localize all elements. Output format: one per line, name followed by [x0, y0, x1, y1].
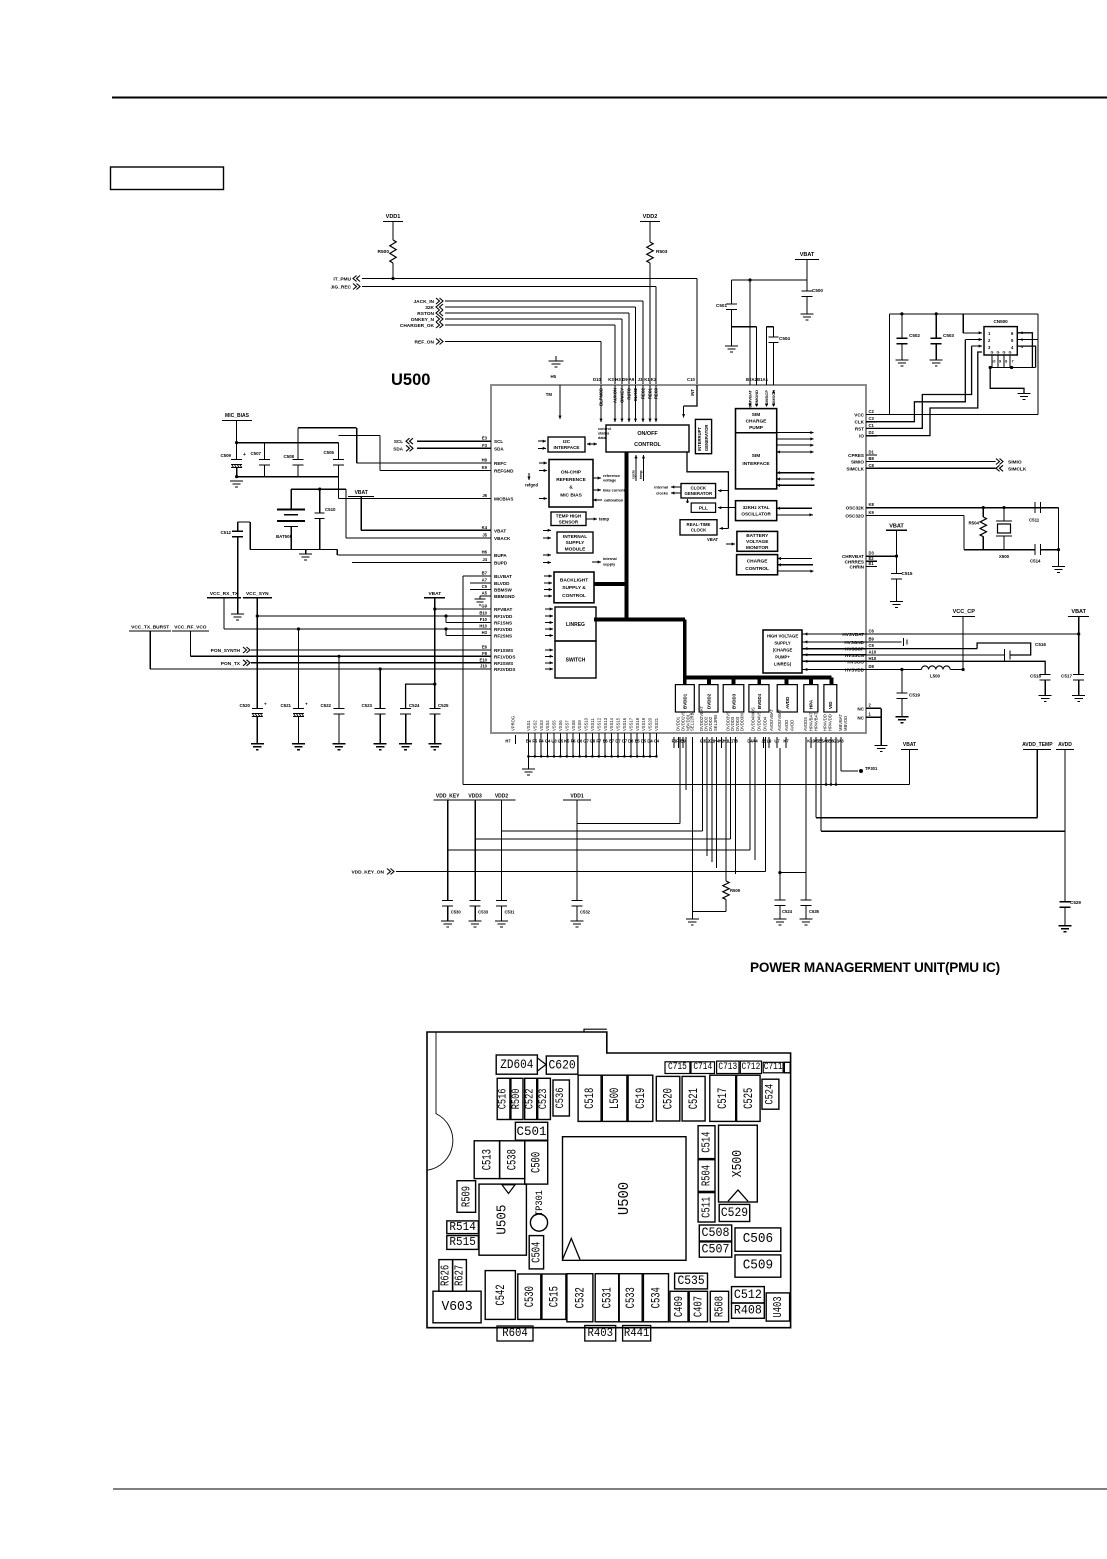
- svg-text:INT: INT: [690, 389, 695, 396]
- svg-text:C530: C530: [451, 910, 462, 915]
- svg-text:VSS5: VSS5: [552, 720, 557, 731]
- svg-text:VSS2: VSS2: [532, 720, 537, 731]
- svg-text:BUPA: BUPA: [494, 553, 507, 558]
- svg-text:DVDD4VS: DVDD4VS: [757, 711, 762, 731]
- svg-text:G9: G9: [481, 604, 487, 609]
- svg-text:REC3: REC3: [654, 387, 659, 399]
- svg-text:SUPPLY: SUPPLY: [774, 641, 791, 646]
- svg-text:C507: C507: [702, 1243, 730, 1257]
- svg-text:C531: C531: [505, 910, 516, 915]
- svg-text:C519: C519: [909, 693, 920, 698]
- svg-text:BACKLIGHT: BACKLIGHT: [560, 577, 588, 583]
- svg-text:C517: C517: [715, 1088, 730, 1109]
- svg-text:C511: C511: [700, 1197, 714, 1218]
- svg-text:C10: C10: [687, 377, 695, 382]
- svg-text:VDD_KEY_ON: VDD_KEY_ON: [351, 870, 384, 876]
- svg-text:E5: E5: [635, 739, 641, 744]
- svg-text:K4: K4: [482, 525, 488, 530]
- svg-text:VID: VID: [828, 701, 833, 709]
- svg-text:J5: J5: [482, 533, 487, 538]
- svg-text:F3: F3: [482, 443, 488, 448]
- svg-text:CONTROL: CONTROL: [634, 442, 661, 448]
- svg-text:AVDD: AVDD: [790, 720, 795, 731]
- svg-text:C536: C536: [555, 1088, 567, 1109]
- svg-text:+: +: [243, 452, 246, 458]
- svg-text:C519: C519: [633, 1088, 648, 1109]
- svg-text:C509: C509: [221, 453, 232, 458]
- svg-text:H3: H3: [482, 630, 488, 635]
- svg-text:U505: U505: [495, 1205, 511, 1235]
- svg-text:CLK: CLK: [855, 420, 865, 425]
- svg-text:AVDDVBAT: AVDDVBAT: [777, 709, 782, 731]
- svg-text:K8: K8: [869, 502, 875, 507]
- svg-text:VBAT: VBAT: [889, 524, 904, 530]
- svg-text:VSS19: VSS19: [641, 717, 646, 731]
- svg-text:D9: D9: [622, 377, 628, 382]
- svg-text:R604: R604: [502, 1327, 528, 1340]
- svg-text:TM: TM: [546, 392, 553, 397]
- svg-text:C506: C506: [324, 450, 335, 455]
- svg-text:VSS11: VSS11: [590, 718, 595, 731]
- svg-text:C538: C538: [505, 1149, 520, 1170]
- svg-text:SWITCH: SWITCH: [566, 657, 586, 663]
- svg-text:RSTON: RSTON: [417, 311, 434, 317]
- svg-text:ZD604: ZD604: [500, 1057, 533, 1072]
- svg-text:C534: C534: [648, 1287, 663, 1308]
- svg-text:AUXON: AUXON: [613, 388, 618, 403]
- svg-text:HVSVBAT: HVSVBAT: [842, 632, 864, 637]
- svg-text:H9: H9: [482, 458, 488, 463]
- svg-text:VDD3: VDD3: [468, 794, 482, 800]
- svg-text:C501: C501: [716, 303, 727, 308]
- svg-text:PLL: PLL: [699, 505, 708, 511]
- svg-text:C9: C9: [869, 643, 875, 648]
- svg-text:D10: D10: [593, 377, 601, 382]
- svg-text:PON_TX: PON_TX: [221, 661, 241, 667]
- svg-text:C532: C532: [580, 910, 591, 915]
- svg-text:INTERFACE: INTERFACE: [553, 445, 579, 450]
- svg-text:calibration: calibration: [604, 499, 624, 503]
- svg-text:RF2SWS: RF2SWS: [494, 661, 513, 666]
- svg-text:RSTO: RSTO: [627, 387, 632, 399]
- svg-text:C520: C520: [661, 1088, 676, 1109]
- svg-text:AVDD: AVDD: [784, 720, 789, 731]
- svg-text:C521: C521: [686, 1088, 701, 1109]
- svg-text:F7: F7: [596, 739, 602, 744]
- svg-text:BVDD1: BVDD1: [683, 693, 688, 709]
- svg-text:BVDD4: BVDD4: [757, 693, 762, 709]
- svg-text:R504: R504: [700, 1165, 714, 1186]
- svg-text:K2: K2: [651, 377, 657, 382]
- svg-text:C510: C510: [325, 507, 336, 512]
- svg-text:K1: K1: [644, 377, 650, 382]
- svg-text:C620: C620: [549, 1058, 576, 1073]
- svg-text:D2: D2: [869, 430, 875, 435]
- svg-text:SDA: SDA: [393, 446, 403, 451]
- svg-text:SEL3RB: SEL3RB: [713, 715, 718, 731]
- svg-text:C504: C504: [779, 336, 790, 341]
- svg-text:C533: C533: [478, 910, 489, 915]
- svg-text:C509: C509: [743, 1259, 773, 1274]
- svg-text:JIG_REC: JIG_REC: [330, 285, 351, 291]
- svg-text:supply: supply: [603, 563, 616, 567]
- svg-text:R515: R515: [449, 1236, 475, 1249]
- svg-text:D7: D7: [615, 739, 621, 744]
- svg-text:VDD2: VDD2: [643, 214, 658, 220]
- svg-text:H10: H10: [869, 656, 877, 661]
- svg-text:C8: C8: [869, 463, 875, 468]
- svg-text:VSS18: VSS18: [635, 717, 640, 731]
- svg-text:U500: U500: [616, 1182, 633, 1215]
- svg-text:VDD1: VDD1: [386, 214, 401, 220]
- svg-text:G: G: [1009, 351, 1012, 355]
- svg-text:VSS20: VSS20: [648, 717, 653, 731]
- svg-text:VBAT: VBAT: [707, 537, 719, 542]
- svg-text:SIMIO: SIMIO: [1008, 460, 1022, 466]
- svg-text:G: G: [1003, 351, 1006, 355]
- svg-text:CLOCK: CLOCK: [691, 528, 707, 533]
- svg-text:HPAVBAT: HPAVBAT: [813, 712, 818, 731]
- svg-text:+: +: [305, 702, 308, 707]
- svg-text:C407: C407: [691, 1296, 705, 1317]
- svg-text:VSS7: VSS7: [564, 720, 569, 731]
- svg-text:VCC: VCC: [854, 413, 864, 418]
- svg-text:MIC_BIAS: MIC_BIAS: [225, 413, 250, 419]
- svg-text:C508: C508: [702, 1226, 730, 1240]
- svg-text:C522: C522: [321, 703, 332, 708]
- svg-text:VSS16: VSS16: [622, 717, 627, 731]
- svg-text:C409: C409: [672, 1296, 686, 1317]
- svg-text:SIMCLK: SIMCLK: [846, 466, 864, 471]
- svg-text:SIMCLK: SIMCLK: [1008, 466, 1027, 472]
- svg-text:J6: J6: [482, 493, 487, 498]
- svg-text:RF2SNS: RF2SNS: [494, 634, 512, 639]
- svg-text:REAL-TIME: REAL-TIME: [687, 522, 711, 527]
- svg-text:temp: temp: [599, 517, 609, 522]
- svg-text:BLPMCD: BLPMCD: [599, 388, 604, 406]
- svg-text:C2: C2: [869, 409, 875, 414]
- svg-text:C532: C532: [572, 1287, 587, 1308]
- svg-text:BBMGND: BBMGND: [494, 594, 515, 599]
- svg-text:G7: G7: [583, 739, 589, 744]
- svg-text:U3: U3: [551, 739, 557, 744]
- svg-text:F5: F5: [532, 739, 538, 744]
- svg-text:VBAT: VBAT: [428, 591, 441, 597]
- svg-text:&: &: [569, 485, 573, 491]
- svg-text:C514: C514: [1030, 559, 1041, 564]
- svg-text:VSS14: VSS14: [609, 717, 614, 731]
- svg-text:H3: H3: [615, 377, 621, 382]
- svg-text:ON-CHIP: ON-CHIP: [561, 470, 582, 476]
- svg-text:C524: C524: [764, 1083, 776, 1104]
- svg-text:DVDD3M: DVDD3M: [740, 713, 745, 731]
- svg-text:F6: F6: [571, 739, 577, 744]
- svg-text:REF_ON: REF_ON: [415, 340, 435, 346]
- svg-text:TP301: TP301: [865, 766, 878, 771]
- svg-text:C513: C513: [479, 1149, 494, 1170]
- svg-text:CN500: CN500: [993, 319, 1008, 324]
- svg-text:AVDD: AVDD: [785, 696, 790, 709]
- svg-text:ON/OFF: ON/OFF: [637, 431, 658, 437]
- svg-text:H6: H6: [482, 550, 488, 555]
- svg-text:RF1SWS: RF1SWS: [494, 648, 513, 653]
- svg-text:H5: H5: [551, 374, 557, 379]
- svg-text:INTERNAL: INTERNAL: [563, 534, 587, 540]
- svg-text:G: G: [997, 351, 1000, 355]
- svg-text:C516: C516: [1035, 642, 1046, 647]
- svg-text:VDD_KEY: VDD_KEY: [436, 794, 460, 800]
- svg-text:AVDD: AVDD: [1058, 742, 1072, 748]
- svg-text:R509: R509: [459, 1186, 473, 1207]
- svg-text:C521: C521: [281, 703, 292, 708]
- svg-text:H10: H10: [479, 624, 487, 629]
- svg-text:C518: C518: [1030, 674, 1041, 679]
- svg-text:VSS4: VSS4: [545, 720, 550, 731]
- svg-text:A9: A9: [629, 377, 635, 382]
- svg-text:C1: C1: [869, 423, 875, 428]
- svg-text:C500: C500: [529, 1152, 544, 1173]
- svg-text:VBAT: VBAT: [1071, 609, 1086, 615]
- svg-text:R503: R503: [656, 249, 668, 255]
- svg-text:(CHARGE: (CHARGE: [773, 648, 793, 653]
- svg-text:BVDD3: BVDD3: [731, 693, 736, 709]
- svg-text:SIMIO: SIMIO: [851, 460, 864, 465]
- svg-text:GENERATOR: GENERATOR: [704, 425, 709, 451]
- svg-text:BAT500: BAT500: [276, 534, 293, 539]
- svg-text:CPRES: CPRES: [848, 453, 864, 458]
- svg-text:R500: R500: [378, 249, 390, 255]
- svg-text:SCL: SCL: [494, 439, 503, 444]
- svg-text:J4: J4: [482, 557, 487, 562]
- svg-text:POWER MANAGERMENT UNIT(PMU IC): POWER MANAGERMENT UNIT(PMU IC): [750, 960, 1000, 975]
- svg-text:C523: C523: [362, 703, 373, 708]
- svg-text:A7: A7: [482, 578, 488, 583]
- svg-text:CLOCK: CLOCK: [690, 485, 706, 490]
- svg-text:CLK32: CLK32: [633, 387, 638, 401]
- svg-text:7: 7: [1011, 360, 1013, 364]
- svg-text:A5: A5: [482, 591, 488, 596]
- svg-text:D4: D4: [647, 739, 653, 744]
- svg-text:C512: C512: [221, 530, 232, 535]
- svg-text:C529: C529: [721, 1206, 748, 1220]
- svg-text:C507: C507: [251, 451, 262, 456]
- svg-text:K9: K9: [482, 465, 488, 470]
- svg-text:INTERRUPT: INTERRUPT: [697, 427, 702, 451]
- svg-text:X500: X500: [730, 1150, 746, 1177]
- svg-text:G: G: [991, 351, 994, 355]
- svg-text:CHARGE: CHARGE: [746, 419, 768, 425]
- svg-text:RF1VDD: RF1VDD: [494, 614, 513, 619]
- svg-text:C529: C529: [1070, 900, 1081, 905]
- svg-text:C524: C524: [409, 703, 420, 708]
- svg-text:C3: C3: [869, 416, 875, 421]
- svg-text:32KHz XTAL: 32KHz XTAL: [743, 505, 770, 510]
- svg-text:C542: C542: [493, 1284, 508, 1305]
- svg-text:OSCILLATOR: OSCILLATOR: [741, 511, 771, 516]
- svg-text:A10: A10: [869, 649, 877, 654]
- svg-text:OSC32K: OSC32K: [846, 506, 865, 511]
- svg-text:cycle: cycle: [632, 470, 636, 479]
- svg-text:internal: internal: [654, 486, 668, 490]
- svg-text:VBAT: VBAT: [903, 742, 916, 748]
- svg-text:OSC32O: OSC32O: [845, 513, 864, 518]
- svg-text:CONTROL: CONTROL: [562, 593, 586, 599]
- svg-text:VCC_RF_VCO: VCC_RF_VCO: [174, 625, 207, 631]
- svg-text:VCC_SYN: VCC_SYN: [246, 591, 269, 597]
- svg-text:C713: C713: [718, 1062, 737, 1073]
- svg-text:VPROG: VPROG: [511, 716, 516, 731]
- svg-text:DVDD4MOS: DVDD4MOS: [751, 707, 756, 731]
- svg-text:VSS21: VSS21: [654, 717, 659, 731]
- svg-text:G6: G6: [577, 739, 583, 744]
- svg-text:HPAVDD: HPAVDD: [828, 714, 833, 731]
- svg-text:C522: C522: [525, 1089, 537, 1110]
- svg-text:LINREG: LINREG: [566, 622, 585, 628]
- svg-text:C501: C501: [517, 1124, 547, 1139]
- svg-text:C517: C517: [1061, 674, 1072, 679]
- svg-text:PUMP: PUMP: [749, 425, 764, 431]
- svg-text:F10: F10: [480, 617, 488, 622]
- svg-text:status: status: [598, 432, 609, 436]
- svg-text:G5: G5: [558, 739, 564, 744]
- svg-text:RF2VDD: RF2VDD: [494, 627, 513, 632]
- svg-text:VSS12: VSS12: [596, 717, 601, 731]
- svg-text:RF1VDDS: RF1VDDS: [494, 654, 515, 659]
- svg-text:B10: B10: [479, 611, 487, 616]
- svg-text:E6: E6: [603, 739, 609, 744]
- svg-text:ONKEY_N: ONKEY_N: [411, 317, 435, 323]
- svg-text:NC: NC: [857, 706, 864, 711]
- svg-text:AVDD_TEMP: AVDD_TEMP: [1022, 742, 1053, 748]
- svg-text:R627: R627: [453, 1265, 467, 1286]
- svg-text:HVSGND: HVSGND: [844, 640, 864, 645]
- svg-text:C6: C6: [869, 629, 875, 634]
- svg-text:E10: E10: [480, 657, 488, 662]
- svg-text:VDD1: VDD1: [570, 794, 584, 800]
- svg-text:VSS1: VSS1: [526, 720, 531, 731]
- svg-text:C502: C502: [909, 333, 920, 338]
- svg-text:C5: C5: [482, 584, 488, 589]
- svg-text:LINREG): LINREG): [774, 662, 792, 667]
- svg-text:J10: J10: [480, 664, 488, 669]
- svg-text:V603: V603: [441, 1299, 472, 1315]
- svg-text:C500: C500: [812, 288, 823, 293]
- svg-text:REC1: REC1: [648, 387, 653, 399]
- svg-text:VSS10: VSS10: [584, 717, 589, 731]
- svg-text:DVDD2: DVDD2: [706, 693, 711, 709]
- svg-text:SCL: SCL: [394, 439, 403, 444]
- svg-text:L500: L500: [930, 674, 941, 679]
- svg-text:B7: B7: [482, 571, 488, 576]
- svg-text:C711: C711: [764, 1062, 783, 1073]
- svg-text:CONTROL: CONTROL: [745, 566, 769, 572]
- svg-text:TP301: TP301: [534, 1190, 546, 1216]
- svg-text:VSS13: VSS13: [603, 717, 608, 731]
- svg-text:HPA: HPA: [809, 699, 814, 709]
- svg-text:clocks: clocks: [656, 492, 668, 496]
- svg-text:GENERATOR: GENERATOR: [684, 491, 712, 496]
- svg-text:PUMP+: PUMP+: [775, 655, 790, 660]
- svg-text:HVSSCN: HVSSCN: [845, 653, 865, 658]
- svg-text:SUPPLY &: SUPPLY &: [562, 585, 586, 591]
- svg-text:H7: H7: [505, 739, 511, 744]
- svg-text:temp: temp: [639, 470, 643, 479]
- svg-text:CHRIN: CHRIN: [849, 565, 864, 570]
- svg-text:SIMSCP: SIMSCP: [764, 390, 769, 406]
- svg-text:C516: C516: [498, 1089, 510, 1110]
- svg-text:MICBIAS: MICBIAS: [494, 497, 513, 502]
- svg-text:ONKEY: ONKEY: [620, 388, 625, 403]
- svg-text:VSS17: VSS17: [628, 717, 633, 731]
- svg-text:RFVBAT: RFVBAT: [494, 607, 512, 612]
- svg-text:VCC_RX_TX: VCC_RX_TX: [210, 591, 239, 597]
- svg-text:SIMVBAT: SIMVBAT: [748, 389, 753, 407]
- svg-text:MONITOR: MONITOR: [746, 545, 769, 551]
- svg-text:SDA: SDA: [494, 446, 504, 451]
- svg-text:VSS9: VSS9: [577, 720, 582, 731]
- svg-text:K3: K3: [608, 377, 614, 382]
- svg-text:+: +: [264, 702, 267, 707]
- svg-text:G4: G4: [545, 739, 551, 744]
- svg-text:U500: U500: [391, 371, 430, 389]
- svg-text:C506: C506: [743, 1232, 773, 1247]
- svg-text:C714: C714: [693, 1062, 712, 1073]
- svg-text:G8: G8: [590, 739, 596, 744]
- svg-text:K9: K9: [869, 510, 875, 515]
- svg-text:9: 9: [999, 360, 1001, 364]
- svg-text:C503: C503: [943, 333, 954, 338]
- svg-text:VSS15: VSS15: [616, 717, 621, 731]
- svg-text:K5: K5: [564, 739, 570, 744]
- svg-text:C524: C524: [782, 909, 793, 914]
- svg-text:C523: C523: [538, 1089, 550, 1110]
- svg-text:HVSOO: HVSOO: [847, 659, 864, 664]
- svg-text:DVDD4: DVDD4: [762, 716, 767, 731]
- svg-text:R504: R504: [969, 521, 980, 526]
- svg-text:C525: C525: [741, 1088, 756, 1109]
- svg-text:CHARGER_OK: CHARGER_OK: [400, 323, 435, 329]
- svg-text:R500: R500: [511, 1089, 523, 1110]
- svg-text:R509: R509: [730, 888, 741, 893]
- svg-text:R408: R408: [734, 1304, 762, 1318]
- svg-text:C515: C515: [902, 571, 913, 576]
- svg-text:D8: D8: [869, 664, 875, 669]
- svg-text:data: data: [598, 436, 607, 440]
- svg-text:C531: C531: [599, 1287, 614, 1308]
- svg-text:C518: C518: [582, 1088, 597, 1109]
- svg-text:VSS8: VSS8: [571, 720, 576, 731]
- svg-text:CHARGE: CHARGE: [747, 559, 769, 565]
- svg-text:C530: C530: [522, 1286, 537, 1307]
- svg-text:C535: C535: [677, 1274, 704, 1288]
- svg-text:BLVDD: BLVDD: [494, 581, 510, 586]
- svg-text:C515: C515: [546, 1286, 561, 1307]
- svg-text:REFC: REFC: [494, 461, 507, 466]
- svg-text:RST: RST: [855, 426, 864, 431]
- svg-text:VSS3: VSS3: [539, 720, 544, 731]
- svg-text:HIGH VOLTAGE: HIGH VOLTAGE: [767, 634, 798, 639]
- svg-text:voltage: voltage: [603, 479, 616, 483]
- svg-text:REFERENCE: REFERENCE: [556, 477, 586, 483]
- svg-text:F4: F4: [539, 739, 545, 744]
- svg-text:internal: internal: [603, 557, 617, 561]
- svg-text:E6: E6: [482, 645, 488, 650]
- svg-text:C525: C525: [438, 703, 449, 708]
- svg-text:F8: F8: [482, 651, 488, 656]
- svg-text:X500: X500: [999, 554, 1010, 559]
- svg-text:VOLTAGE: VOLTAGE: [746, 539, 769, 545]
- svg-text:C7: C7: [622, 739, 628, 744]
